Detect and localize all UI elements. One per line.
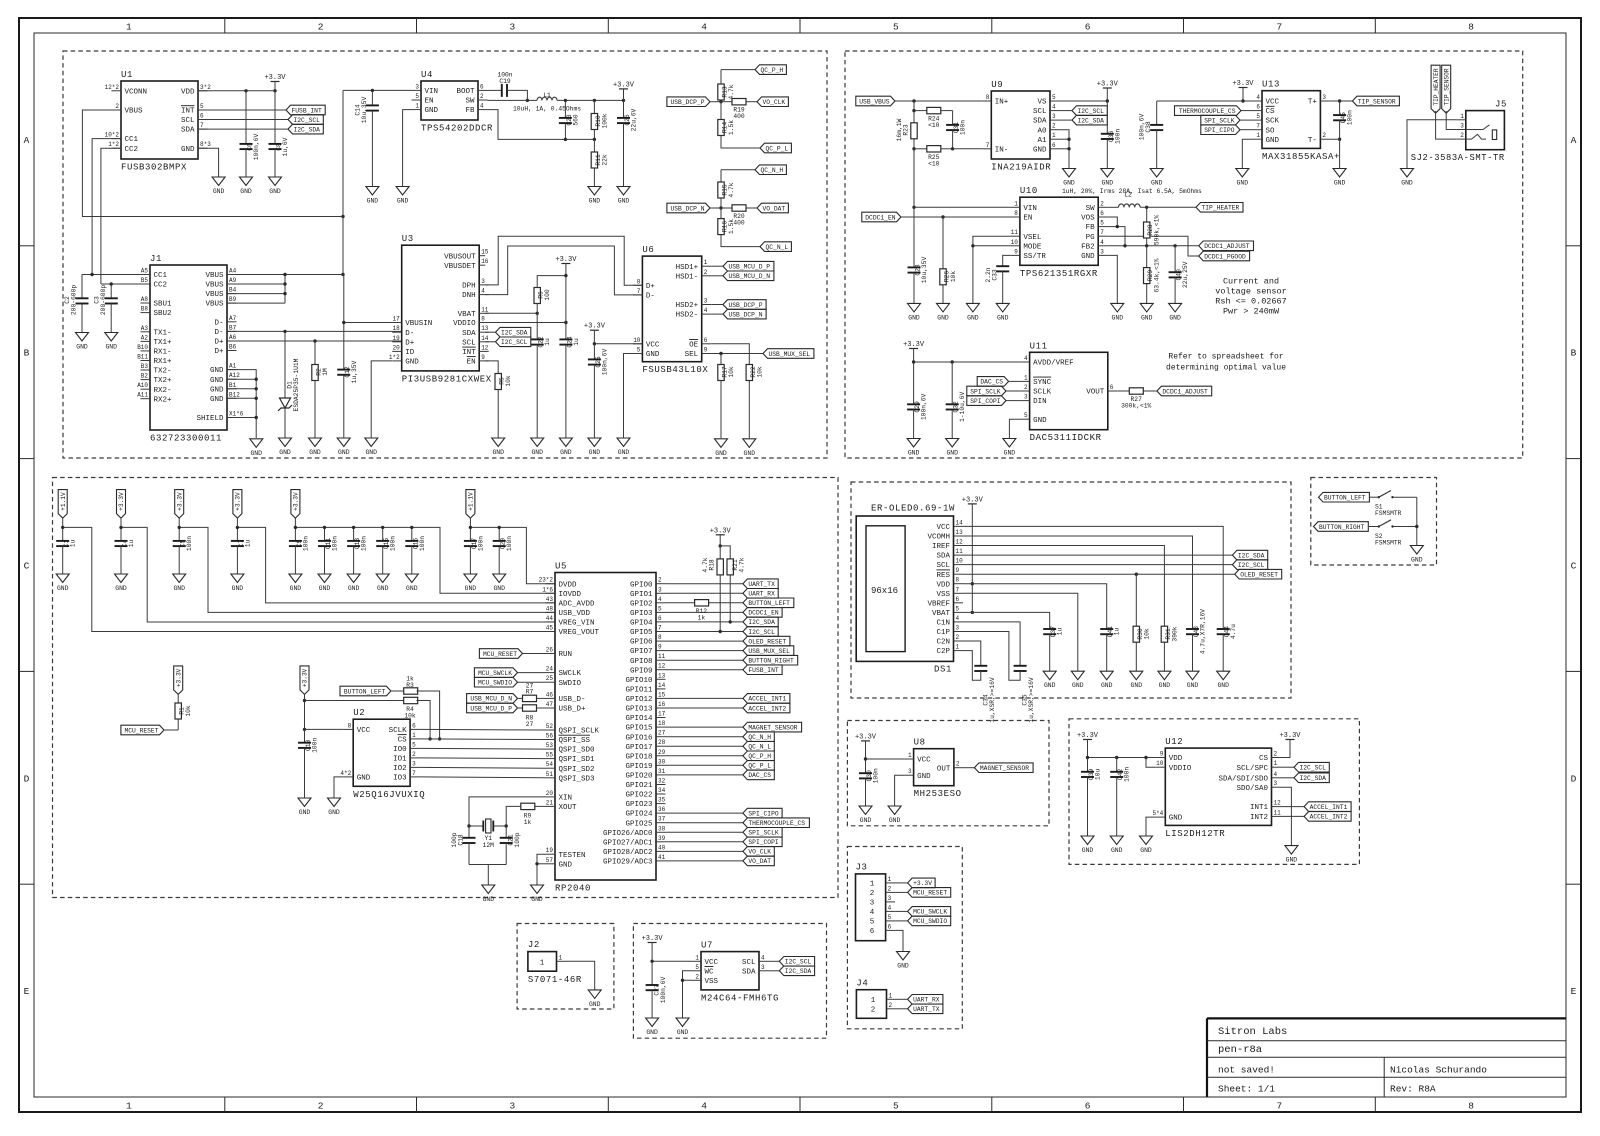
svg-text:6: 6: [1100, 210, 1104, 217]
wire GPIO row SPI_CIPO: [666, 812, 743, 814]
wire U9 IN-: [953, 148, 982, 150]
svg-text:B6: B6: [229, 344, 237, 351]
capacitor C10: [298, 729, 319, 798]
hier label OLED_RESET at OLED: [1235, 569, 1282, 579]
svg-text:15: 15: [658, 691, 666, 698]
svg-text:100n,6V: 100n,6V: [253, 134, 260, 161]
svg-text:390k: 390k: [1171, 626, 1178, 641]
junction R4 CS: [428, 737, 431, 740]
wire U13 VCC rail: [1157, 100, 1253, 102]
svg-text:1: 1: [126, 22, 132, 33]
svg-text:3: 3: [761, 964, 765, 971]
svg-text:6: 6: [1052, 142, 1056, 149]
svg-text:GND: GND: [57, 585, 69, 592]
capacitor C32: [946, 362, 967, 439]
ground U9: [1063, 169, 1076, 187]
svg-text:RX1-: RX1-: [154, 349, 172, 357]
svg-text:C2: C2: [64, 296, 71, 304]
svg-text:300k,<1%: 300k,<1%: [1121, 403, 1151, 410]
svg-text:QC_N_H: QC_N_H: [761, 167, 784, 174]
svg-text:VCC: VCC: [917, 757, 931, 765]
power +3.3V U9: [1097, 81, 1119, 102]
svg-text:GPIO10: GPIO10: [625, 677, 653, 685]
resistor R27 300k: [1121, 388, 1157, 410]
hier label SPI_CIPO at U13: [1201, 125, 1253, 135]
svg-text:1u: 1u: [1057, 628, 1064, 636]
wire U12 GND: [1146, 817, 1156, 836]
svg-text:1M: 1M: [322, 368, 329, 376]
svg-text:OLED_RESET: OLED_RESET: [748, 638, 786, 645]
wire GPIO row VO_DAT: [666, 860, 743, 862]
junction cap rail: [323, 526, 326, 529]
svg-text:I2C_SCL: I2C_SCL: [1300, 765, 1327, 772]
capacitor C21: [500, 826, 522, 865]
capacitor C15 100n: [376, 527, 397, 574]
wire XIN to crystal: [469, 797, 546, 826]
svg-text:GND: GND: [357, 775, 371, 783]
svg-text:A10: A10: [137, 382, 148, 389]
wire GPIO row QC_N_L: [666, 745, 743, 747]
svg-text:HSD1-: HSD1-: [676, 273, 699, 281]
svg-text:GND: GND: [677, 1029, 689, 1036]
hier label SPI_COPI at U5: [743, 837, 782, 847]
svg-text:VS: VS: [1037, 99, 1047, 107]
crystal Y1 12M: [469, 819, 506, 849]
svg-text:GPIO7: GPIO7: [630, 648, 653, 656]
svg-text:Rsh <= 0.02667: Rsh <= 0.02667: [1215, 297, 1286, 307]
svg-text:57: 57: [546, 857, 554, 864]
ground OLED rail: [1186, 671, 1199, 689]
svg-text:36: 36: [658, 806, 666, 813]
svg-text:SPI_SCLK: SPI_SCLK: [970, 388, 1000, 395]
ground C42: [1110, 836, 1123, 854]
svg-text:Nicolas Schurando: Nicolas Schurando: [1390, 1064, 1487, 1075]
svg-text:1: 1: [871, 997, 876, 1005]
svg-text:1: 1: [1256, 132, 1260, 139]
svg-text:7: 7: [1100, 229, 1104, 236]
junction GND SHIELD: [255, 416, 258, 419]
ground C13: [347, 574, 360, 592]
svg-text:VDD: VDD: [1169, 755, 1183, 763]
svg-text:6: 6: [412, 722, 416, 729]
svg-text:U8: U8: [914, 738, 926, 748]
power +3.3V U12: [1077, 732, 1099, 758]
svg-text:GND: GND: [1102, 180, 1114, 187]
svg-text:B4: B4: [229, 287, 237, 294]
svg-text:GND: GND: [367, 198, 379, 205]
resistor R25 <10: [914, 146, 953, 168]
junction QC_N divider: [719, 206, 722, 209]
svg-text:10u,35V: 10u,35V: [361, 97, 368, 124]
wire U9 address pins: [1060, 130, 1070, 169]
svg-text:632723300011: 632723300011: [150, 434, 222, 444]
ground C1: [56, 574, 69, 592]
wire OLED VDD: [963, 584, 1107, 629]
wire DNH to U6 D-: [485, 246, 642, 295]
svg-text:VCC: VCC: [357, 727, 371, 735]
svg-text:M24C64-FMH6TG: M24C64-FMH6TG: [701, 993, 779, 1003]
svg-text:SCLK: SCLK: [389, 727, 408, 735]
svg-text:10uH, 1A, 0.45Ohms: 10uH, 1A, 0.45Ohms: [513, 105, 581, 112]
svg-text:DCDC1_ADJUST: DCDC1_ADJUST: [1204, 243, 1250, 250]
svg-text:B: B: [1571, 348, 1577, 359]
svg-text:17: 17: [392, 316, 400, 323]
svg-text:7: 7: [1277, 22, 1283, 33]
svg-text:A9: A9: [229, 277, 237, 284]
svg-text:1uH, 20%, Irms 28A, Isat 6.5A,: 1uH, 20%, Irms 28A, Isat 6.5A, 5mOhms: [1062, 188, 1202, 195]
svg-text:WC: WC: [705, 968, 715, 976]
svg-text:13: 13: [658, 672, 666, 679]
wire GPIO2 row: [666, 602, 743, 604]
junction VOS FB: [1116, 225, 1119, 228]
junction cap rail: [352, 526, 355, 529]
svg-text:U2: U2: [353, 708, 365, 718]
svg-text:XIN: XIN: [559, 795, 573, 803]
svg-text:2: 2: [1100, 200, 1104, 207]
junction A5 CC1: [90, 273, 93, 276]
svg-text:20: 20: [546, 790, 554, 797]
ground U2: [328, 798, 341, 816]
svg-text:U10: U10: [1020, 186, 1038, 196]
svg-text:GPIO15: GPIO15: [625, 725, 653, 733]
hier label FUSB_INT: [198, 105, 325, 115]
svg-text:UART_TX: UART_TX: [748, 581, 775, 588]
svg-text:4: 4: [1274, 771, 1278, 778]
svg-text:IO0: IO0: [393, 746, 407, 754]
svg-text:I2C_SCL: I2C_SCL: [748, 629, 775, 636]
hier label I2C_SDA at U12: [1281, 773, 1329, 783]
svg-text:DCDC1_PGOOD: DCDC1_PGOOD: [1204, 253, 1246, 260]
svg-text:19: 19: [392, 335, 400, 342]
ground U7: [676, 1018, 689, 1036]
svg-text:SYNC: SYNC: [1033, 379, 1052, 387]
svg-text:GPIO12: GPIO12: [625, 696, 652, 704]
svg-text:400: 400: [733, 220, 745, 227]
power +3.3V pullups: [710, 527, 732, 546]
svg-text:VREG_VOUT: VREG_VOUT: [559, 629, 600, 637]
svg-text:C1N: C1N: [936, 620, 950, 628]
hier label VO_CLK at U5: [743, 847, 774, 857]
svg-text:IREF: IREF: [932, 543, 950, 551]
svg-text:4.7k: 4.7k: [738, 557, 745, 572]
junction VDDIO C24: [564, 321, 567, 324]
svg-text:8: 8: [986, 94, 990, 101]
svg-text:TESTEN: TESTEN: [559, 852, 586, 860]
hier label SPI_SCLK at U11: [967, 386, 1020, 396]
hier label USB_MCU_D_N: [711, 271, 774, 281]
svg-text:GND: GND: [1044, 682, 1056, 689]
svg-text:A12: A12: [229, 372, 240, 379]
svg-text:35: 35: [658, 797, 666, 804]
svg-text:GND: GND: [210, 396, 224, 404]
svg-text:3: 3: [1274, 780, 1278, 787]
svg-text:10: 10: [1011, 239, 1019, 246]
svg-text:5: 5: [1256, 113, 1260, 120]
svg-text:VREG_VIN: VREG_VIN: [559, 620, 595, 628]
svg-text:I2C_SCL: I2C_SCL: [785, 959, 812, 966]
svg-text:BUTTON_RIGHT: BUTTON_RIGHT: [748, 658, 794, 665]
svg-text:<10: <10: [928, 122, 940, 129]
wire OE to R22: [711, 344, 749, 365]
svg-text:3: 3: [510, 22, 516, 33]
svg-text:FUSB302BMPX: FUSB302BMPX: [121, 163, 187, 173]
hier label ACCEL_INT2 at U12: [1281, 812, 1351, 822]
svg-text:X1*6: X1*6: [229, 411, 244, 418]
resistor R22 10k: [746, 365, 763, 439]
svg-text:B12: B12: [229, 391, 240, 398]
svg-text:FB: FB: [465, 107, 475, 115]
svg-text:2: 2: [695, 973, 699, 980]
svg-text:SCK: SCK: [1266, 118, 1280, 126]
svg-text:GND: GND: [279, 449, 291, 456]
svg-text:TX1+: TX1+: [154, 339, 173, 347]
wire U7 WC VSS: [683, 971, 692, 1018]
svg-text:QSPI_SCLK: QSPI_SCLK: [559, 728, 600, 736]
svg-text:5*4: 5*4: [1152, 810, 1163, 817]
resistor R12 1k: [695, 600, 709, 622]
svg-text:VO_CLK: VO_CLK: [748, 849, 771, 856]
junction R21 I2C_SDA: [729, 620, 732, 623]
wire VBUSIN from trunk: [344, 275, 402, 323]
svg-text:SDO/SA0: SDO/SA0: [1236, 785, 1268, 793]
capacitor C36: [1101, 101, 1122, 169]
capacitor C27: [646, 961, 668, 1018]
svg-text:22u,6V: 22u,6V: [631, 108, 638, 131]
svg-text:19: 19: [546, 847, 554, 854]
wire U1 GND: [198, 148, 219, 177]
wire DPH to U6 D+: [485, 236, 642, 285]
hier label QC_N_L at U5: [743, 741, 774, 751]
svg-text:14: 14: [658, 682, 666, 689]
svg-text:B7: B7: [229, 324, 237, 331]
svg-text:TIP_SENSOR: TIP_SENSOR: [1358, 98, 1396, 105]
svg-text:+3.3V: +3.3V: [642, 935, 664, 943]
svg-text:THERMOCOUPLE_CS: THERMOCOUPLE_CS: [748, 820, 805, 827]
svg-text:+3.3V: +3.3V: [1077, 732, 1099, 740]
capacitor C19: [488, 72, 528, 101]
svg-text:VBUSOUT: VBUSOUT: [444, 253, 476, 261]
svg-text:D+: D+: [214, 348, 224, 356]
svg-text:GPIO26/ADC0: GPIO26/ADC0: [603, 830, 653, 838]
wire SS/TR to C33: [1003, 255, 1011, 266]
wire U12 SDO gnd: [1281, 787, 1291, 845]
wire GPIO row FUSB_INT: [666, 669, 743, 671]
junction VDD C8: [273, 89, 276, 92]
resistor R28 590k: [1144, 207, 1161, 246]
svg-text:100n: 100n: [419, 536, 426, 551]
wire OLED SCL: [963, 564, 1232, 566]
svg-text:+3.3V: +3.3V: [176, 492, 183, 511]
svg-text:VBAT: VBAT: [932, 610, 951, 618]
svg-text:U11: U11: [1030, 341, 1048, 351]
hier label I2C_SCL at U1: [198, 115, 323, 125]
svg-text:1: 1: [559, 954, 563, 961]
svg-text:I2C_SCL: I2C_SCL: [1238, 562, 1265, 569]
svg-text:55: 55: [546, 752, 554, 759]
wire VBAT node: [485, 312, 537, 314]
wire GPIO row UART_RX: [666, 592, 743, 594]
svg-text:+3.3V: +3.3V: [118, 492, 125, 511]
ground OLED rail: [1130, 671, 1143, 689]
ground C8: [269, 177, 282, 195]
svg-text:+1.1V: +1.1V: [60, 492, 67, 511]
resistor R17 10k: [718, 354, 735, 439]
svg-text:ACCEL_INT1: ACCEL_INT1: [748, 696, 786, 703]
wire OLED VCC: [963, 526, 1223, 629]
svg-text:MAGNET_SENSOR: MAGNET_SENSOR: [980, 765, 1029, 772]
junction B5 C3: [110, 282, 113, 285]
hier label USB_MCU_D_P: [711, 261, 774, 271]
svg-text:MAGNET_SENSOR: MAGNET_SENSOR: [748, 724, 797, 731]
hier label QC_P_L: [760, 143, 791, 153]
svg-text:IO2: IO2: [393, 765, 407, 773]
svg-text:1*2: 1*2: [389, 354, 400, 361]
junction VBUSIN C12: [342, 321, 345, 324]
svg-text:1u: 1u: [573, 338, 580, 346]
svg-text:A8: A8: [141, 296, 149, 303]
hier label THERMOCOUPLE_CS at U5: [743, 818, 810, 828]
svg-text:GND: GND: [618, 198, 630, 205]
svg-text:+3.3V: +3.3V: [264, 74, 286, 82]
svg-text:GND: GND: [889, 817, 901, 824]
junction VS C36: [1106, 99, 1109, 102]
junction C4: [119, 526, 122, 529]
ground J5: [1401, 169, 1414, 187]
svg-text:CS: CS: [1259, 755, 1269, 763]
svg-text:13: 13: [956, 529, 964, 536]
svg-text:INT: INT: [462, 349, 476, 357]
svg-text:<10: <10: [928, 160, 940, 167]
wire QSPI bus: [420, 728, 546, 731]
connector J2 S7071-46R: [528, 940, 582, 985]
svg-text:R18: R18: [709, 559, 716, 571]
svg-text:100p: 100p: [514, 832, 521, 847]
wire U3 GND: [371, 361, 392, 438]
wire OLED VCOMH: [963, 536, 1193, 629]
svg-text:VCC: VCC: [1266, 99, 1280, 107]
svg-text:2: 2: [318, 22, 324, 33]
svg-text:6: 6: [704, 337, 708, 344]
svg-text:QSPI_SD0: QSPI_SD0: [559, 747, 596, 755]
junction MODE: [971, 244, 974, 247]
svg-text:3: 3: [1024, 394, 1028, 401]
svg-text:100p: 100p: [451, 832, 458, 847]
svg-text:UART_RX: UART_RX: [913, 997, 940, 1004]
svg-text:GND: GND: [917, 773, 931, 781]
svg-text:4: 4: [701, 22, 707, 33]
svg-text:3: 3: [510, 1101, 516, 1112]
svg-text:GPIO25: GPIO25: [625, 820, 653, 828]
svg-text:4: 4: [1256, 94, 1260, 101]
wire GPIO row BUTTON_RIGHT: [666, 659, 743, 661]
svg-text:SPI_CIPO: SPI_CIPO: [748, 810, 778, 817]
hier label VO_DAT at U5: [743, 856, 774, 866]
ground C4: [115, 574, 128, 592]
svg-text:A2: A2: [141, 334, 149, 341]
ground R17: [715, 439, 728, 457]
svg-text:100n,6V: 100n,6V: [660, 977, 667, 1004]
svg-text:USB_MUX_SEL: USB_MUX_SEL: [769, 351, 811, 358]
junction FB R10: [593, 138, 596, 141]
svg-text:GPIO21: GPIO21: [625, 782, 653, 790]
svg-text:GND: GND: [493, 585, 505, 592]
svg-text:CC1: CC1: [125, 136, 139, 144]
svg-text:SPI_SCLK: SPI_SCLK: [748, 830, 778, 837]
capacitor C42: [1110, 758, 1131, 837]
capacitor C2: [64, 275, 89, 333]
svg-text:1: 1: [1274, 760, 1278, 767]
svg-text:400: 400: [733, 113, 745, 120]
hier label DCDC1_ADJUST at U10: [1199, 241, 1254, 251]
junction T- C45: [1338, 138, 1341, 141]
svg-text:VBREF: VBREF: [927, 600, 950, 608]
svg-text:6: 6: [956, 596, 960, 603]
wire FB2 row to DCDC1_ADJUST: [1108, 245, 1199, 247]
svg-text:VO_DAT: VO_DAT: [748, 858, 771, 865]
wire J1 GND pins tie: [227, 370, 256, 438]
hier label +3.3V at J3: [895, 878, 935, 888]
dashed box reset connector section: [517, 924, 614, 1010]
svg-text:1k: 1k: [524, 819, 532, 826]
svg-text:C2N: C2N: [936, 639, 950, 647]
svg-text:RX1+: RX1+: [154, 358, 173, 366]
svg-text:B10: B10: [137, 344, 148, 351]
flash U2 W25Q16JVUXIQ: [340, 708, 425, 800]
svg-text:1*2: 1*2: [108, 141, 119, 148]
hier label DCDC1_ADJUST at U11: [1157, 386, 1212, 396]
hier label I2C_SCL at U12: [1281, 762, 1329, 772]
power flag +3.3V U2: [300, 666, 309, 730]
svg-text:100n: 100n: [390, 536, 397, 551]
svg-text:ESDA25P35-1U1M: ESDA25P35-1U1M: [293, 358, 300, 411]
svg-text:VCOMH: VCOMH: [927, 534, 950, 542]
svg-text:20: 20: [392, 344, 400, 351]
svg-text:5: 5: [658, 605, 662, 612]
svg-text:VBAT: VBAT: [458, 311, 477, 319]
svg-text:4.7u,X7R,16V: 4.7u,X7R,16V: [1200, 609, 1207, 655]
svg-text:7: 7: [1256, 123, 1260, 130]
svg-text:GND: GND: [1401, 180, 1413, 187]
svg-text:SW: SW: [465, 98, 475, 106]
capacitor C45: [1333, 101, 1354, 139]
ground OLED rail: [1043, 671, 1056, 689]
svg-text:C38: C38: [1145, 121, 1152, 133]
capacitor C22: [531, 313, 552, 438]
svg-text:UART_RX: UART_RX: [748, 591, 775, 598]
ground R5: [492, 438, 505, 456]
junction R25 left: [912, 147, 915, 150]
svg-text:1: 1: [956, 644, 960, 651]
wire T- row: [1330, 139, 1340, 168]
junction QC_P divider: [719, 100, 722, 103]
svg-text:100n: 100n: [361, 536, 368, 551]
svg-text:GND: GND: [406, 585, 418, 592]
svg-text:VBUSIN: VBUSIN: [405, 320, 432, 328]
resistor R21 4.7k: [727, 557, 745, 622]
svg-text:1.5k: 1.5k: [728, 219, 735, 234]
svg-text:IN+: IN+: [995, 99, 1009, 107]
ground C6: [240, 177, 253, 195]
hier label TIP_SENSOR at U13: [1352, 96, 1399, 106]
svg-text:T-: T-: [1308, 137, 1317, 145]
junction crystal left: [467, 824, 470, 827]
svg-text:GPIO11: GPIO11: [625, 687, 653, 695]
svg-text:10*2: 10*2: [105, 132, 120, 139]
svg-text:2: 2: [889, 1002, 893, 1009]
junction C25: [593, 342, 596, 345]
wire VBUS tie: [227, 275, 285, 304]
hier label BUTTON_RIGHT at U5: [743, 655, 798, 665]
